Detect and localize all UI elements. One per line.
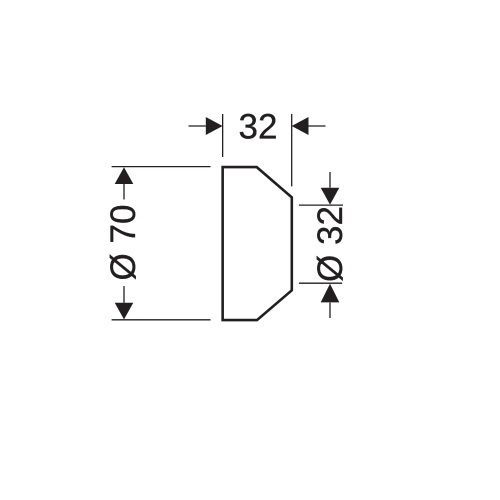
dimension Ø 32 (right): top tail line [329,172,331,188]
dimension 32 (top width): right tail line [309,125,326,127]
dimension Ø 32 (right): bottom extension line [299,282,342,284]
dimension 32 (top width): left arrowhead [206,117,223,135]
dimension Ø 70 (left height): bottom arrowhead [115,303,134,320]
svg-text:32: 32 [239,108,278,147]
svg-text:Ø 32: Ø 32 [311,206,350,282]
dimension Ø 32 (right): bottom arrowhead [321,284,340,303]
svg-text:Ø 70: Ø 70 [104,205,143,281]
dimension 32 (top width): right arrowhead [292,117,309,135]
dimension Ø 32 (right): top arrowhead [321,188,340,205]
dimension Ø 70 (left height): top extension line [112,166,211,168]
dimension Ø 70 (left height): top arrowhead [115,167,134,184]
dimension Ø 70 (left height): bottom extension line [112,319,211,321]
dimension 32 (top width): right extension line [291,114,293,186]
dimension 32 (top width): left tail line [189,125,206,127]
dimension Ø 32 (right): bottom tail line [329,303,331,318]
dimension 32 (top width): left extension line [222,114,224,157]
dimension Ø 70 (left height): lower dimension line segment [123,286,125,303]
dimension Ø 32 (right): top extension line [299,204,343,206]
dimension Ø 70 (left height): upper dimension line segment [123,184,125,200]
part outline: chamfered D-profile body [223,167,292,320]
